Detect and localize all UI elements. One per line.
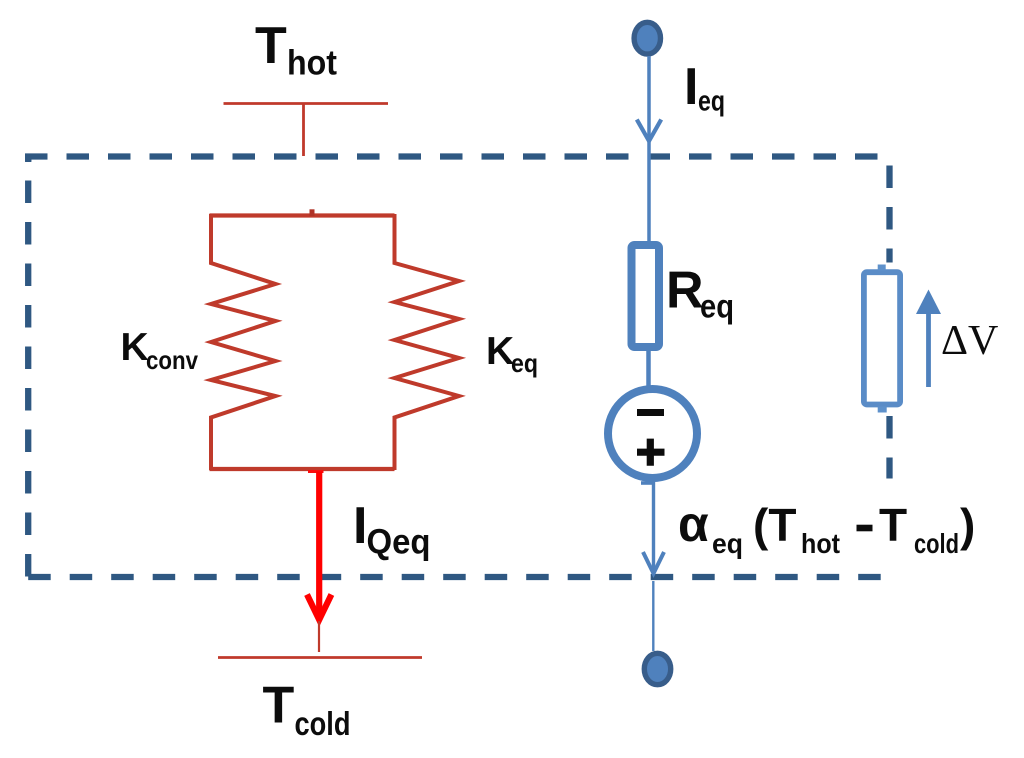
wire top of thermal resistor pair [210,213,395,217]
heat flow arrow I_Qeq [307,472,331,620]
wire boundary to bottom terminal [652,581,654,651]
dashed system boundary box [25,157,890,578]
Delta V arrow [926,310,931,387]
top-left corner stub [25,157,31,163]
svg-text:K: K [486,330,514,373]
junction tick bottom center [308,470,324,473]
top electrical terminal node [634,22,660,54]
arrowhead on source output wire [643,552,664,574]
svg-text:I: I [684,58,698,116]
svg-text:R: R [666,262,704,320]
voltage source V1 (Seebeck EMF) [608,389,697,478]
svg-text:eq: eq [700,288,734,325]
svg-text:K: K [121,326,149,369]
node T_hot terminal bar [224,102,389,105]
svg-text:T: T [255,17,287,75]
svg-text:Qeq: Qeq [367,523,431,562]
wire R_eq to voltage source [646,351,651,392]
bottom border [28,574,885,580]
wire T_hot bar to boundary [302,104,305,157]
svg-text:eq: eq [511,348,538,378]
thermal resistor K_conv [211,214,276,470]
node T_cold terminal bar [218,656,422,659]
output element rectangle (Delta V) [864,272,900,404]
left border [25,157,31,578]
svg-text:I: I [353,497,367,555]
resistor R_eq [632,245,660,347]
thermal resistor K_eq [395,214,460,470]
label alpha_eq (T_hot - T_cold) [857,525,873,532]
svg-text:eq: eq [698,86,725,118]
current arrowhead I_eq [637,120,661,142]
pin tab bottom of output element [878,407,887,413]
svg-text:ΔV: ΔV [941,318,998,364]
right border lower segment [886,416,892,479]
plus sign [637,439,665,466]
pin tab top of output element [878,265,886,271]
wire source to boundary with arrowhead [652,481,655,573]
svg-text:cold: cold [295,705,351,742]
minus sign [637,409,664,416]
top border [25,153,881,159]
bottom electrical terminal node [644,653,670,684]
svg-text:hot: hot [287,44,337,83]
wire terminal to R_eq [647,56,651,241]
svg-text:conv: conv [146,345,198,375]
tick at source bottom [641,481,653,485]
right border upper segment [886,166,892,263]
svg-text:T: T [263,677,295,735]
wire bottom of thermal resistor pair [210,467,395,471]
wire arrow to T_cold bar [318,621,320,652]
junction tick top center [310,209,315,216]
